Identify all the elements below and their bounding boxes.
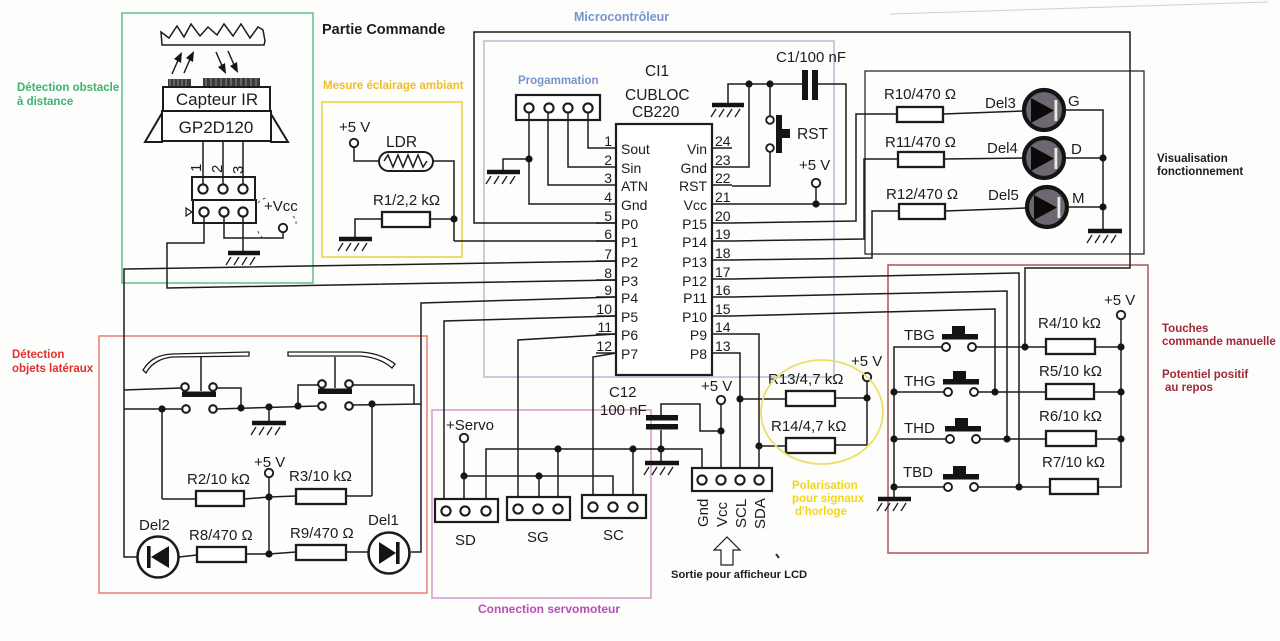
svg-text:Del1: Del1 [368, 512, 399, 529]
label: Détection obstacle à distance [17, 82, 119, 108]
svg-text:D: D [1071, 141, 1082, 158]
pushbutton THD [904, 418, 981, 443]
svg-text:16: 16 [715, 282, 731, 298]
+Vcc terminal [258, 198, 298, 237]
+5V terminal LCD [701, 378, 732, 476]
svg-text:C12: C12 [609, 384, 637, 401]
svg-text:P7: P7 [621, 346, 638, 362]
wire: bus to SG pin2 [538, 476, 540, 504]
wire: rail to THD [894, 438, 946, 440]
junction: TBG column [1021, 343, 1028, 350]
svg-text:P11: P11 [683, 290, 707, 306]
IC left pin stubs 1-12 [596, 148, 616, 353]
junction: R2 tap [158, 405, 165, 412]
svg-text:3: 3 [230, 166, 247, 174]
svg-text:TBG: TBG [904, 327, 935, 344]
wire: sensor pins to connector [203, 141, 243, 184]
junction: SCL R13 [736, 395, 743, 402]
wire: R8 right [246, 553, 269, 555]
svg-text:20: 20 [715, 208, 731, 224]
wire: R9 left [269, 552, 296, 554]
svg-text:7: 7 [604, 246, 612, 262]
resistor R10 [884, 86, 956, 122]
svg-text:+Vcc: +Vcc [264, 198, 298, 215]
label: Détection objets latéraux [12, 349, 94, 375]
wire: +Servo bus [464, 476, 613, 502]
LED Del3 [1024, 90, 1064, 130]
svg-text:P3: P3 [621, 273, 638, 289]
LED Del2 [138, 537, 179, 578]
wire: +5V rail touches [1098, 319, 1121, 487]
connector SC [582, 495, 646, 544]
svg-text:R2/10 kΩ: R2/10 kΩ [187, 471, 250, 488]
wire: R10 to Del3 [943, 111, 1023, 114]
label: Polarisation pour signaux d'horloge [792, 480, 865, 518]
LED Del5 [1027, 187, 1067, 227]
junction: +5V pin21 [812, 200, 819, 207]
svg-text:+5 V: +5 V [1104, 292, 1135, 309]
junction: rail Del4 [1099, 154, 1106, 161]
svg-text:15: 15 [715, 301, 731, 317]
junction: rail R6 [1117, 435, 1124, 442]
svg-text:Vcc: Vcc [714, 501, 731, 527]
junction: ground row c [294, 402, 301, 409]
svg-text:Del2: Del2 [139, 517, 170, 534]
wire: R1 right [430, 218, 454, 220]
wire: header pin3 to IC pin2 [568, 113, 596, 167]
junction: R8 R9 +5V [265, 550, 272, 557]
svg-text:objets latéraux: objets latéraux [12, 363, 94, 375]
wire: P2 branch to bottom row [124, 408, 182, 410]
svg-text:pour signaux: pour signaux [792, 493, 865, 505]
svg-text:R8/470 Ω: R8/470 Ω [189, 527, 253, 544]
wire: gnd rail to C1 left [728, 84, 803, 103]
junction: rail TBD [890, 483, 897, 490]
IC right pin stubs 13-24 [712, 148, 732, 353]
op IC U1 CUBLOC CB220 body [616, 124, 712, 375]
junction: gnd rail RST [766, 80, 773, 87]
svg-text:TBD: TBD [903, 464, 933, 481]
wire: +5V to LDR [354, 147, 379, 161]
svg-text:SD: SD [455, 532, 476, 549]
svg-text:2: 2 [209, 165, 226, 173]
resistor R12 [886, 186, 958, 219]
LDR R0 [379, 134, 433, 171]
junction: ground row a [237, 404, 244, 411]
wire: bus to SD pin2 [463, 476, 465, 506]
svg-text:+5 V: +5 V [851, 353, 882, 370]
wire: connector pin2 to +Vcc [224, 216, 283, 238]
svg-text:2: 2 [604, 152, 612, 168]
+Servo terminal [446, 417, 494, 476]
junction: gnd bus SC [629, 445, 636, 452]
resistor R9 [290, 525, 354, 560]
wire: RST bottom to pin22 [732, 152, 770, 186]
+5V terminal touches [1104, 292, 1135, 319]
wire: R3 tap vertical [371, 404, 373, 496]
label: Mesure éclairage ambiant [323, 80, 464, 92]
svg-text:19: 19 [715, 226, 731, 242]
microswitch right contacts [318, 380, 353, 410]
wire: header pin2 to IC pin3 [548, 113, 596, 185]
wire: ground stem [268, 407, 270, 421]
IR beam arrows down [216, 51, 238, 74]
IC left pin numbers [596, 133, 612, 354]
svg-text:17: 17 [715, 264, 731, 280]
frame: green detection box [122, 13, 313, 283]
wire: R6 right [1096, 438, 1121, 440]
svg-text:P14: P14 [682, 234, 707, 250]
label: Del5 [988, 187, 1019, 204]
svg-text:SC: SC [603, 527, 624, 544]
wire: P10 pin15 to THG column [732, 309, 995, 392]
label: SCL (rotated) [733, 499, 750, 528]
svg-text:24: 24 [715, 133, 731, 149]
svg-text:G: G [1068, 93, 1080, 110]
ground: near C1 [711, 105, 744, 117]
label: Progammation [518, 75, 599, 87]
microswitch left contacts [181, 383, 217, 413]
svg-text:C1/100 nF: C1/100 nF [776, 49, 846, 66]
wire: P2 pin7 to left switches and Del2 [124, 261, 616, 557]
wire: P6 pin11 to SG pin1 [518, 334, 616, 504]
svg-text:Gnd: Gnd [681, 160, 707, 176]
LED Del4 [1024, 138, 1064, 178]
frame: dark red touches box [888, 265, 1148, 553]
wire: R4 right [1095, 346, 1121, 348]
svg-text:R5/10 kΩ: R5/10 kΩ [1039, 363, 1102, 380]
+5V terminal LDR [339, 119, 370, 147]
svg-text:R11/470 Ω: R11/470 Ω [885, 134, 956, 151]
svg-text:9: 9 [604, 282, 612, 298]
sensor body Capteur IR [163, 87, 270, 111]
wire: header pin4 to IC pin1 [588, 113, 596, 148]
wire: gnd stem C12 [660, 449, 662, 461]
label: Vcc (rotated) [714, 501, 731, 527]
wire: R13 right [835, 397, 867, 399]
svg-text:SDA: SDA [752, 498, 769, 529]
svg-text:18: 18 [715, 245, 731, 261]
label: M [1072, 190, 1085, 207]
wire: LED cathode rail [1065, 110, 1103, 229]
junction: C12 gnd [657, 445, 664, 452]
svg-text:R4/10 kΩ: R4/10 kΩ [1038, 315, 1101, 332]
junction: gnd bus SG [554, 445, 561, 452]
sensor body GP2D120 [162, 111, 271, 141]
svg-text:Gnd: Gnd [621, 197, 647, 213]
wire: rail to THG [894, 391, 944, 393]
connector SG [507, 497, 570, 546]
svg-text:P15: P15 [682, 216, 707, 232]
arrow: LCD output [714, 537, 779, 565]
junction: servo bus SG [535, 472, 542, 479]
obstacle zigzag [161, 24, 265, 45]
wire: P4 pin9 to right switch and Del1 [411, 297, 616, 552]
svg-text:Del3: Del3 [985, 95, 1016, 112]
junction: THD column [1003, 435, 1010, 442]
junction: rail THD [890, 435, 897, 442]
svg-text:Polarisation: Polarisation [792, 480, 858, 492]
svg-text:P10: P10 [682, 309, 707, 325]
svg-text:12: 12 [596, 338, 612, 354]
svg-text:SG: SG [527, 529, 549, 546]
+5V terminal switches [254, 454, 285, 554]
svg-text:P4: P4 [621, 290, 638, 306]
wire: left switch top-right down [217, 388, 241, 408]
svg-text:8: 8 [604, 265, 612, 281]
resistor R3 [289, 468, 352, 504]
wire: R12 to Del5 [945, 208, 1026, 211]
wire: right switch top-left bracket [298, 385, 318, 406]
svg-text:Del5: Del5 [988, 187, 1019, 204]
svg-text:d'horloge: d'horloge [795, 506, 847, 518]
svg-text:Visualisation: Visualisation [1157, 153, 1228, 165]
wire: R5 right [1094, 391, 1121, 393]
wire: P11 pin16 to THD column [732, 291, 1007, 439]
svg-text:R13/4,7 kΩ: R13/4,7 kΩ [768, 371, 843, 388]
svg-text:Connection servomoteur: Connection servomoteur [478, 602, 620, 616]
frame: blue microcontroller box [484, 41, 834, 377]
svg-text:Vcc: Vcc [684, 197, 707, 213]
svg-text:5: 5 [604, 208, 612, 224]
svg-text:R3/10 kΩ: R3/10 kΩ [289, 468, 352, 485]
resistor R14 [771, 418, 846, 453]
junction: servo bus SD [460, 472, 467, 479]
label: Del4 [987, 140, 1018, 157]
wire: right switch top-right to P4 [353, 385, 414, 404]
svg-text:Microcontrôleur: Microcontrôleur [574, 10, 669, 24]
connector programming header [516, 95, 600, 120]
resistor R7 [1042, 454, 1105, 494]
label: G [1068, 93, 1080, 110]
svg-text:GP2D120: GP2D120 [179, 118, 254, 137]
label: Partie Commande [322, 22, 445, 38]
label: Del1 [368, 512, 399, 529]
wire: THD to R6 [980, 438, 1046, 440]
microswitch left actuator [182, 392, 216, 398]
wire: R9 right to Del1 [346, 551, 369, 553]
label: Touches commande manuelle [1162, 323, 1276, 348]
wire: R2 tap vertical [161, 409, 163, 499]
junction: rail R5 [1117, 388, 1124, 395]
wire: C1 right to +5V node [818, 84, 846, 204]
svg-text:1: 1 [604, 133, 612, 149]
wire: connector pin3 to ground [242, 216, 244, 251]
svg-text:CUBLOC: CUBLOC [625, 87, 690, 104]
svg-text:Touches: Touches [1162, 323, 1208, 335]
svg-text:M: M [1072, 190, 1085, 207]
resistor R2 [187, 471, 250, 506]
junction: +5V R2R3 [265, 493, 272, 500]
svg-text:P8: P8 [690, 346, 707, 362]
left whisker blade [143, 352, 249, 373]
label: CI1 CUBLOC CB220 [625, 63, 690, 121]
capacitor C12 [600, 384, 678, 430]
svg-text:au repos: au repos [1165, 382, 1213, 394]
ground: C12 [644, 463, 679, 475]
wire: P13 pin18 to R12 [732, 211, 899, 260]
junction: SDA R14 [755, 442, 762, 449]
capacitor C1 [776, 49, 846, 100]
svg-text:Détection obstacle: Détection obstacle [17, 82, 119, 94]
svg-text:22: 22 [715, 170, 731, 186]
svg-text:Sortie pour afficheur LCD: Sortie pour afficheur LCD [671, 569, 807, 581]
right whisker blade [288, 352, 395, 368]
wire: TBG to R4 [976, 346, 1046, 348]
wire: gnd bus to SC pin3 [632, 449, 634, 502]
svg-text:R7/10 kΩ: R7/10 kΩ [1042, 454, 1105, 471]
svg-text:Potentiel positif: Potentiel positif [1162, 369, 1248, 381]
svg-text:R1/2,2 kΩ: R1/2,2 kΩ [373, 192, 440, 209]
wire: right switch bottom-right to P4 vertical [353, 404, 421, 405]
wire: P5 pin10 to SD pin1 [444, 316, 616, 506]
pushbutton THG [904, 371, 979, 396]
svg-text:ATN: ATN [621, 178, 648, 194]
svg-text:P0: P0 [621, 216, 638, 232]
resistor R13 [768, 371, 843, 406]
svg-text:LDR: LDR [386, 134, 417, 151]
connector J1 bottom row [193, 200, 256, 223]
pushbutton TBG [904, 326, 978, 351]
wire: left rail buttons [894, 347, 942, 497]
label: Sortie pour afficheur LCD [671, 569, 807, 581]
resistor R1 [373, 192, 440, 227]
svg-text:Progammation: Progammation [518, 75, 599, 87]
svg-text:Sin: Sin [621, 160, 641, 176]
ground: switches [251, 423, 286, 435]
svg-text:R6/10 kΩ: R6/10 kΩ [1039, 408, 1102, 425]
frame: visualisation box [865, 71, 1144, 254]
LED Del1 [369, 533, 410, 574]
wire: LDR right to R1 junction [433, 161, 454, 241]
label: SDA (rotated) [752, 498, 769, 529]
svg-text:THD: THD [904, 420, 935, 437]
connector LCD [692, 468, 772, 491]
pushbutton RST [766, 115, 828, 153]
wire: R2 left [162, 498, 196, 500]
svg-text:P5: P5 [621, 309, 638, 325]
resistor R8 [189, 527, 253, 562]
wire: R3 left to +5V [269, 496, 296, 497]
wire: C12 bottom to gnd bus [660, 430, 662, 449]
svg-text:10: 10 [596, 301, 612, 317]
wire: header pin1 to IC pin4 [529, 113, 596, 204]
svg-text:P12: P12 [682, 273, 707, 289]
sensor lens blocks [168, 78, 260, 87]
junction: +5V R13 [863, 394, 870, 401]
svg-text:RST: RST [797, 126, 829, 143]
wire: R14 left [759, 445, 786, 447]
svg-text:Partie Commande: Partie Commande [322, 22, 445, 38]
svg-text:3: 3 [604, 170, 612, 186]
resistor R6 [1039, 408, 1102, 446]
svg-text:14: 14 [715, 319, 731, 335]
wire: Del2 to R8 [179, 555, 197, 557]
IC left pin names [621, 141, 650, 362]
yellow ellipse polarisation [761, 360, 883, 464]
svg-text:6: 6 [604, 226, 612, 242]
wire: P15 pin20 to R10 [732, 114, 897, 223]
IR beam arrows up [172, 51, 194, 74]
svg-text:13: 13 [715, 338, 731, 354]
frame: pink servo box [432, 410, 651, 598]
wire: pin21 Vcc to +5V and C1 [732, 203, 846, 205]
wire: RST top to gnd rail [769, 84, 771, 116]
wire: P14 pin19 to R11 [732, 159, 898, 241]
+5V terminal near RST [799, 157, 830, 204]
label: D [1071, 141, 1082, 158]
microswitch right actuator [318, 389, 352, 395]
junction: ground row b [265, 403, 272, 410]
svg-text:RST: RST [679, 178, 707, 194]
svg-text:+5 V: +5 V [799, 157, 830, 174]
svg-text:R12/470 Ω: R12/470 Ω [886, 186, 958, 203]
svg-text:21: 21 [715, 189, 731, 205]
svg-text:4: 4 [604, 189, 612, 205]
wire: R14 right [835, 444, 867, 446]
connector SD [435, 499, 498, 549]
label: Del3 [985, 95, 1016, 112]
svg-text:P9: P9 [690, 327, 707, 343]
ground: LDR [338, 239, 372, 251]
wire: P12 pin17 to TBD column [732, 273, 1019, 487]
+5V terminal pullups [851, 353, 882, 445]
svg-text:Sout: Sout [621, 141, 650, 157]
junction: rail Del5 [1099, 203, 1106, 210]
sensor mounting flanges [145, 113, 288, 142]
label: Connection servomoteur [478, 602, 620, 616]
ground: buttons rail [877, 499, 911, 511]
wire: R11 to Del4 [944, 158, 1023, 159]
wire: P8 pin13 to SCL and R13 [732, 353, 740, 476]
svg-text:THG: THG [904, 373, 936, 390]
pin labels 1 2 3 (rotated) [188, 164, 247, 174]
svg-text:commande manuelle: commande manuelle [1162, 336, 1276, 348]
wire: R3 right [346, 495, 372, 497]
wire: P2 branch to left switch top-left [124, 388, 181, 390]
right whisker stem [334, 357, 336, 388]
ground: programming header [486, 172, 520, 184]
label: Potentiel positif au repos [1162, 369, 1248, 394]
junction: rail THG [890, 388, 897, 395]
label: Microcontrôleur [574, 10, 669, 24]
svg-text:Gnd: Gnd [695, 499, 712, 527]
svg-text:CI1: CI1 [645, 63, 669, 80]
junction: R3 tap [368, 400, 375, 407]
svg-text:P2: P2 [621, 254, 638, 270]
svg-text:23: 23 [715, 152, 731, 168]
wire: R1 left to ground [355, 219, 382, 237]
svg-text:R10/470 Ω: R10/470 Ω [884, 86, 956, 103]
wire: ground bus servo [486, 449, 702, 506]
svg-text:Del4: Del4 [987, 140, 1018, 157]
svg-text:100 nF: 100 nF [600, 402, 647, 419]
wire: R13 left [740, 398, 786, 400]
svg-text:+5 V: +5 V [701, 378, 732, 395]
label: Visualisation fonctionnement [1157, 153, 1243, 178]
wire: P3 pin8 to IR connector pin1 [167, 216, 616, 288]
junction: Vcc C12 [717, 427, 724, 434]
svg-text:R14/4,7 kΩ: R14/4,7 kΩ [771, 418, 846, 435]
junction: header gnd [525, 155, 532, 162]
label: Gnd (rotated) [695, 499, 712, 527]
IC right pin names [679, 141, 707, 362]
wire: P7 pin12 to SC pin1 [593, 353, 616, 501]
frame: red side-objects box [99, 336, 427, 593]
junction: gnd rail pin23 [745, 80, 752, 87]
resistor R5 [1039, 363, 1102, 399]
resistor R11 [885, 134, 956, 167]
